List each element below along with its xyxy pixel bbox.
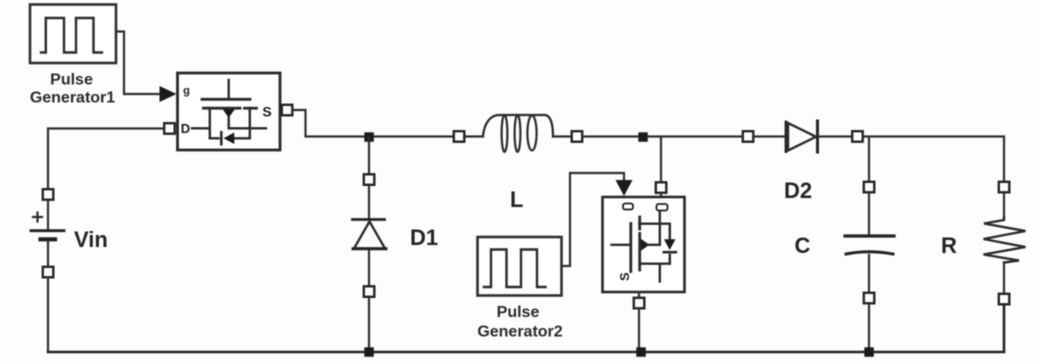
arrowhead into g port of U2 [616, 180, 633, 196]
port square D2 right [852, 131, 863, 142]
port square R bottom [999, 294, 1010, 305]
wire Vin bottom to ground rail [47, 277, 49, 352]
wire D1 bottom lead [368, 250, 370, 286]
port square C bottom [864, 293, 875, 304]
capacitor C [845, 234, 894, 237]
port square U1 D input [164, 123, 175, 134]
diode D1 [353, 218, 385, 221]
wire D1 branch top [368, 137, 370, 174]
wire L to D2 [582, 135, 742, 137]
bottom rail wire [48, 304, 1004, 352]
mosfet U1 icon [192, 80, 266, 144]
mosfet U2 icon (rotated copy) [612, 208, 676, 282]
svg-text:g: g [183, 85, 190, 97]
mosfet block U2 [603, 197, 685, 292]
wire D1 to rail [368, 297, 370, 352]
wire C top lead [868, 192, 870, 234]
svg-text:S: S [262, 104, 271, 120]
svg-text:C: C [795, 233, 811, 258]
mosfet block U1 [178, 73, 281, 150]
wire D2 cathode to output node [819, 135, 852, 137]
dc source Vin [43, 189, 54, 200]
pulse generator block Pulse Generator1 [30, 5, 116, 64]
port square D2 left [743, 131, 754, 142]
port square U2 D [656, 182, 667, 193]
wire output node to R corner [863, 137, 1004, 183]
port square D1 bottom [364, 286, 375, 297]
svg-text:Generator1: Generator1 [30, 90, 115, 107]
port square L left [454, 131, 465, 142]
wire C bottom lead [868, 255, 870, 293]
wire U1 source to main node [293, 110, 455, 137]
wire Pulse Generator2 output to U2 gate [562, 173, 625, 266]
port square D1 top [364, 174, 375, 185]
wire Pulse Generator1 output to MOSFET1 gate [116, 32, 161, 95]
port square R top [999, 182, 1010, 193]
port tag D of U2 [657, 204, 668, 211]
svg-text:R: R [941, 233, 957, 258]
pulse generator block Pulse Generator2 [478, 237, 562, 296]
node junction C on rail [864, 347, 874, 357]
node junction U2 drain tee [638, 132, 648, 142]
svg-text:Pulse: Pulse [497, 304, 540, 321]
svg-text:D1: D1 [410, 225, 438, 250]
port square U2 S bottom [634, 298, 645, 309]
resistor R zigzag [984, 217, 1026, 263]
wire to D2 anode [753, 135, 786, 137]
node junction D1 top [364, 132, 374, 142]
wire down to U2 drain [660, 137, 662, 182]
arrowhead into g port of U1 [160, 86, 177, 102]
wire C to rail [868, 303, 870, 352]
wire Vin top to U1 drain [48, 129, 164, 190]
port square L right [572, 131, 583, 142]
wire R bottom lead [1003, 263, 1005, 294]
svg-text:Generator2: Generator2 [477, 324, 562, 341]
svg-text:S: S [617, 272, 632, 281]
wire C branch top [868, 137, 870, 182]
wire D1 anode lead [368, 185, 370, 219]
svg-text:D: D [181, 121, 190, 136]
port square C top [864, 182, 875, 193]
diode D2 [785, 122, 788, 152]
svg-text:D2: D2 [784, 178, 812, 203]
port tag g of U2 [623, 204, 633, 210]
svg-text:Vin: Vin [74, 227, 108, 252]
node junction D1 bottom on rail [364, 347, 374, 357]
svg-text:Pulse: Pulse [50, 72, 93, 89]
square wave icon of Pulse Generator2 [484, 250, 546, 288]
wire R top lead [1003, 192, 1005, 218]
port square U1 S output [282, 105, 293, 116]
svg-text:L: L [510, 187, 523, 212]
wire U2 source to rail [638, 292, 640, 298]
inductor L coil [464, 115, 571, 152]
square wave icon of Pulse Generator1 [41, 18, 102, 53]
node junction U2 source on rail [636, 347, 646, 357]
